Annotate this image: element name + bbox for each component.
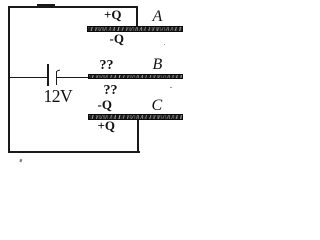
battery long plate xyxy=(47,64,49,86)
label +Q on plate A xyxy=(104,8,122,21)
label -Q above plate C xyxy=(98,98,112,111)
plate A xyxy=(87,26,183,32)
wire battery left lead xyxy=(9,77,48,79)
battery value 12V xyxy=(44,86,73,107)
wire down to plate A xyxy=(136,6,138,27)
speck right of plate B labels xyxy=(170,87,172,89)
plate C xyxy=(88,114,183,120)
speck under plate A xyxy=(164,44,166,46)
wire battery right lead xyxy=(57,77,89,79)
label +Q under plate C xyxy=(98,119,116,132)
battery small tick xyxy=(57,70,60,72)
node B xyxy=(153,57,163,73)
node C xyxy=(152,98,163,114)
label ?? above plate B xyxy=(100,59,114,73)
wire top xyxy=(8,6,138,8)
node A xyxy=(153,9,163,25)
speck below bottom wire xyxy=(20,158,22,161)
label ?? under plate B xyxy=(104,84,118,98)
battery short plate xyxy=(56,71,58,85)
wire top thick segment xyxy=(37,4,55,7)
wire bottom xyxy=(8,151,140,153)
wire from plate C down xyxy=(137,118,139,152)
plate B xyxy=(88,74,183,80)
wire left xyxy=(8,6,10,153)
label -Q under plate A xyxy=(110,32,124,45)
